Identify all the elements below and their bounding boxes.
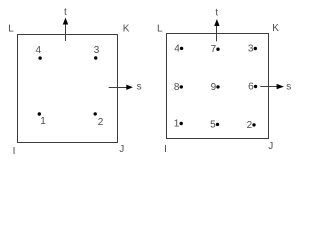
svg-text:2: 2: [247, 120, 253, 131]
node 6 dot (element 2): [254, 85, 257, 88]
svg-text:L: L: [157, 23, 163, 34]
svg-text:4: 4: [36, 45, 42, 56]
svg-text:K: K: [272, 23, 279, 34]
svg-text:8: 8: [174, 82, 180, 93]
svg-text:5: 5: [210, 119, 216, 130]
node 3 dot (element 2): [254, 47, 257, 50]
node 3 dot (element 1): [94, 56, 97, 59]
node 7 dot (element 2): [216, 48, 219, 51]
svg-text:t: t: [64, 7, 67, 18]
svg-text:s: s: [286, 82, 291, 93]
svg-text:J: J: [268, 141, 273, 152]
svg-text:6: 6: [248, 82, 254, 93]
svg-text:J: J: [119, 144, 124, 155]
node 1 dot (element 2): [180, 122, 183, 125]
svg-text:t: t: [215, 8, 218, 19]
svg-text:3: 3: [248, 44, 254, 55]
svg-text:s: s: [137, 82, 142, 93]
svg-text:1: 1: [174, 119, 180, 130]
element 2 outline (9-node element square): [167, 34, 269, 139]
s axis arrow (element 2): [260, 84, 284, 89]
svg-text:I: I: [164, 144, 167, 155]
node 1 dot (element 1): [38, 112, 41, 115]
svg-text:7: 7: [211, 44, 217, 55]
node 2 dot (element 1): [94, 112, 97, 115]
svg-text:1: 1: [40, 116, 46, 127]
node 4 dot (element 2): [180, 47, 183, 50]
svg-text:L: L: [8, 24, 14, 35]
svg-text:2: 2: [98, 117, 104, 128]
svg-text:K: K: [123, 24, 130, 35]
node 5 dot (element 2): [216, 123, 219, 126]
t axis arrow (element 2): [214, 19, 219, 41]
svg-text:3: 3: [94, 45, 100, 56]
element 1 outline (4-node element square): [18, 35, 118, 143]
s axis arrow (element 1): [109, 85, 133, 90]
t axis arrow (element 1): [63, 18, 68, 42]
node 2 dot (element 2): [252, 123, 255, 126]
svg-text:I: I: [13, 146, 16, 157]
node 9 dot (element 2): [216, 85, 219, 88]
node 4 dot (element 1): [38, 56, 41, 59]
svg-text:4: 4: [174, 43, 180, 54]
node 8 dot (element 2): [180, 85, 183, 88]
svg-text:9: 9: [211, 82, 217, 93]
